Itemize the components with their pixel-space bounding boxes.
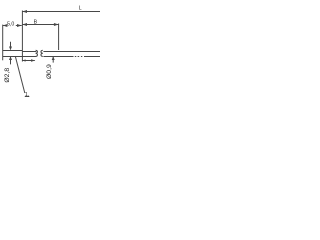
svg-text:5,0: 5,0: [7, 22, 14, 28]
svg-text:1,: 1,: [25, 92, 29, 98]
svg-text:L: L: [79, 6, 82, 12]
svg-text:B: B: [34, 20, 38, 26]
svg-text:Ø0,9: Ø0,9: [46, 64, 53, 79]
svg-text:Ø2,8: Ø2,8: [4, 68, 11, 83]
